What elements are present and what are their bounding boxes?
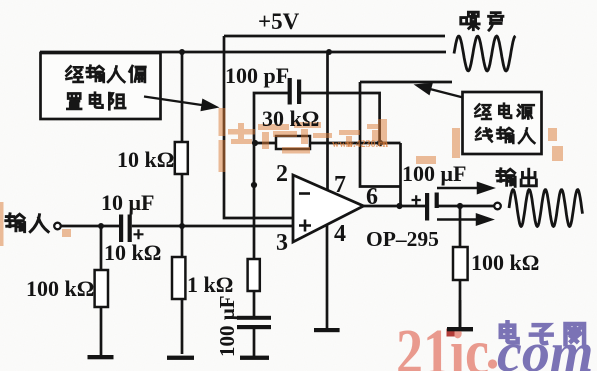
svg-text:www.4230.cn: www.4230.cn xyxy=(332,139,389,150)
wire bias divider vertical xyxy=(181,52,184,354)
junction node inverting input pin 2 xyxy=(251,182,257,188)
svg-text:+5V: +5V xyxy=(258,9,300,34)
svg-text:6: 6 xyxy=(366,184,378,210)
op-amp minus sign xyxy=(299,192,310,195)
arrow from bias box xyxy=(144,97,216,110)
wire mid RC below resistor xyxy=(253,291,256,356)
svg-text:OP–295: OP–295 xyxy=(366,227,439,251)
junction node pin 7 on +5V rail xyxy=(326,49,332,55)
op-amp U1 triangle xyxy=(293,175,364,242)
wire +5V top rail xyxy=(224,35,445,38)
logo chinese xyxy=(501,322,518,342)
wire noise branch from top rail down to op-amp pin 3 xyxy=(224,36,292,218)
svg-text:10 kΩ: 10 kΩ xyxy=(117,147,174,172)
label box: power line input xyxy=(463,92,542,154)
wire output 100k to ground xyxy=(459,206,462,327)
input terminal xyxy=(54,223,61,230)
output terminal xyxy=(494,203,501,210)
wire output cap to terminal xyxy=(438,205,494,208)
wire op-amp pin 7 to rail xyxy=(326,52,329,190)
output sine wave xyxy=(509,190,583,227)
wire from output node up to third noise line xyxy=(360,82,401,187)
noise label xyxy=(461,12,479,29)
ground mid RC xyxy=(240,356,269,360)
svg-text:7: 7 xyxy=(334,172,346,198)
wire input left of cap xyxy=(62,225,120,228)
svg-text:2: 2 xyxy=(276,161,288,187)
capacitor 100pF plates xyxy=(288,78,292,105)
noise sine wave xyxy=(454,36,516,71)
op-amp plus sign xyxy=(299,220,311,232)
svg-text:100 kΩ: 100 kΩ xyxy=(26,276,94,301)
capacitor 100uF output plates xyxy=(425,193,429,221)
svg-text:100 μF: 100 μF xyxy=(215,296,239,357)
junction node output feedback tap xyxy=(396,203,402,209)
resistor 100k output xyxy=(453,247,468,280)
plus sign input cap xyxy=(134,229,144,239)
bias box text line1 xyxy=(66,66,82,81)
output direction arrows xyxy=(437,183,492,224)
bias box text line2 xyxy=(67,93,81,108)
svg-text:21ic: 21ic xyxy=(396,316,489,371)
junction node bias divider on +5V rail xyxy=(179,49,185,55)
resistor 30k feedback xyxy=(276,136,310,149)
resistor 10k (bias upper) xyxy=(175,142,188,174)
input label xyxy=(6,214,25,232)
ground output 100k xyxy=(447,327,473,331)
wire 30k feedback horizontal xyxy=(255,142,401,145)
wire input right of cap to pin 3 xyxy=(132,225,292,228)
wire third noise line xyxy=(360,81,452,84)
orange watermark band xyxy=(0,108,563,246)
resistor 100k input xyxy=(95,270,108,307)
junction node output 100k tap xyxy=(457,203,463,209)
power box text line2 xyxy=(476,128,492,141)
svg-text:100 pF: 100 pF xyxy=(225,63,289,88)
output label xyxy=(497,169,515,186)
ground 1k xyxy=(167,356,194,360)
junction node feedback right xyxy=(377,140,383,146)
wire input 100k to ground xyxy=(100,226,103,356)
resistor mid (inv input network) xyxy=(248,259,260,291)
wire 100pF left lead xyxy=(254,93,288,259)
svg-text:10 μF: 10 μF xyxy=(101,190,154,215)
ground output 100k (overpaint) xyxy=(459,300,462,327)
capacitor 100uF mid plates xyxy=(237,316,271,320)
wire +5V second rail xyxy=(40,51,446,54)
svg-text:100 kΩ: 100 kΩ xyxy=(471,250,539,275)
svg-text:100 μF: 100 μF xyxy=(402,161,466,186)
power box text line1 xyxy=(475,104,490,119)
wire feedback right vertical to output node xyxy=(399,143,402,206)
svg-text:3: 3 xyxy=(276,230,288,256)
ground pin 4 xyxy=(314,328,340,332)
resistor 1k xyxy=(172,257,185,299)
svg-text:4: 4 xyxy=(334,221,346,247)
ground input 100k xyxy=(88,355,114,359)
21ic watermark logo xyxy=(396,316,593,371)
junction node feedback left xyxy=(252,140,258,146)
value label 100 uF mid (rotated) xyxy=(215,296,239,357)
arrow from power box xyxy=(417,84,463,97)
capacitor 10uF input plates xyxy=(119,215,123,243)
svg-text:1 kΩ: 1 kΩ xyxy=(187,272,233,297)
plus sign output cap xyxy=(412,195,421,204)
junction node input 100k xyxy=(98,223,104,229)
wire 100pF right lead xyxy=(301,93,380,143)
label box: input bias xyxy=(41,53,161,119)
svg-text:10 kΩ: 10 kΩ xyxy=(104,240,161,265)
wire op-amp pin 4 to ground xyxy=(326,225,329,330)
junction node bias divider at input wire xyxy=(179,223,185,229)
svg-text:30 kΩ: 30 kΩ xyxy=(262,106,319,131)
wire op-amp output to cap xyxy=(363,205,426,208)
